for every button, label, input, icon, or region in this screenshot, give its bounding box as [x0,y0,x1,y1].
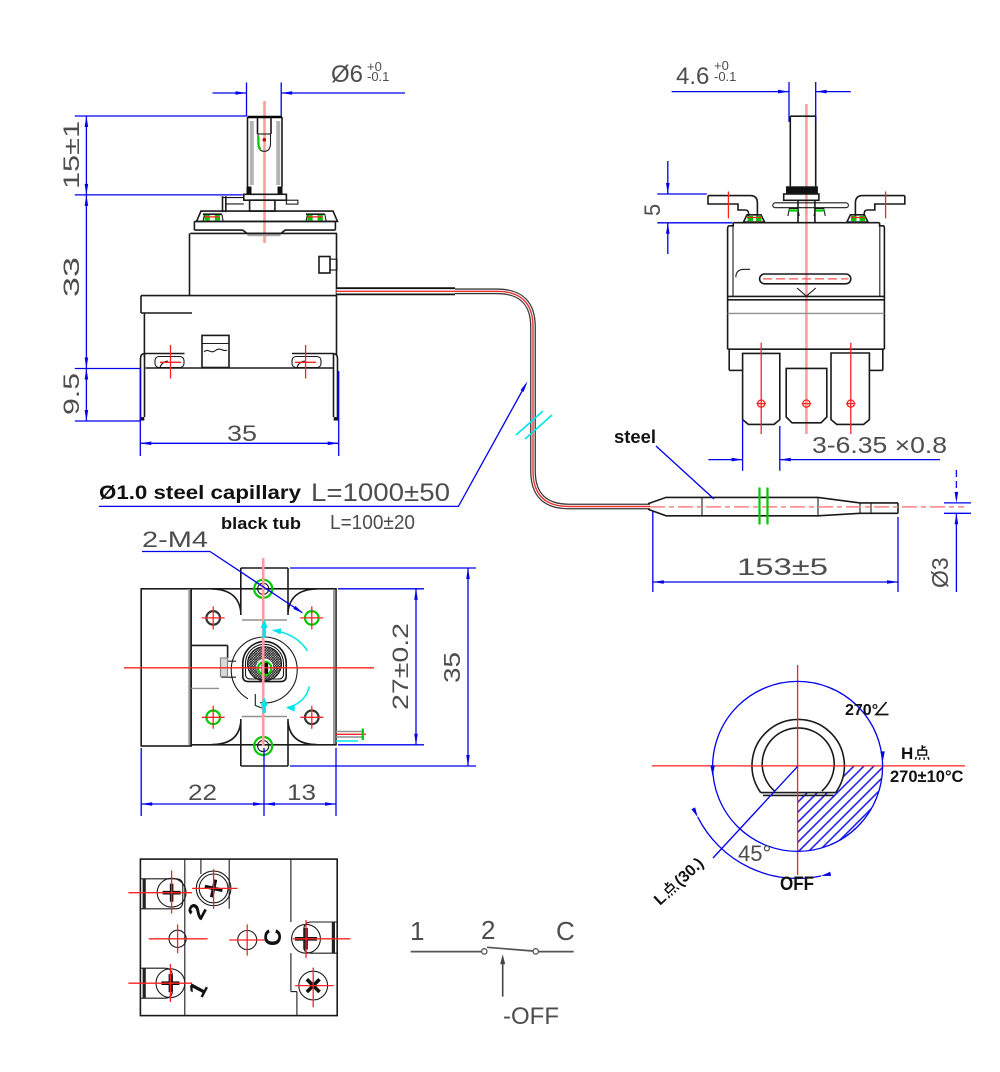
dimensions 22 and 13 [141,748,336,816]
dimension 153±5 [653,511,898,592]
svg-text:Ø3: Ø3 [927,557,953,588]
dimension 5 (side view) [640,161,732,254]
svg-text:C: C [556,916,575,946]
bottom view hole center [229,924,266,955]
svg-text:black tub: black tub [221,514,301,533]
capillary break marks [516,411,543,435]
top view corner holes [202,606,324,728]
sensor bulb [648,497,964,515]
svg-text:270°: 270° [845,702,878,719]
svg-text:2-M4: 2-M4 [142,527,208,552]
side view shaft [784,116,819,223]
top view top mounting tab [212,568,317,620]
svg-text:steel: steel [614,427,656,447]
svg-text:-0.1: -0.1 [714,69,736,84]
top view shaft D-rings [243,642,286,682]
top view center crosshair [124,558,374,746]
dial hatched sector [670,670,900,900]
svg-text:15±1: 15±1 [59,121,84,189]
svg-text:Ø1.0 steel capillary: Ø1.0 steel capillary [99,483,301,504]
front view body [141,233,337,368]
svg-text:Ø6: Ø6 [331,61,363,88]
dimension 4.6 +0 -0.1 [672,58,851,122]
label 2-M4 [142,527,304,614]
svg-text:4.6: 4.6 [676,63,709,90]
side view left wing bracket [708,192,765,223]
svg-text:35: 35 [227,421,257,446]
svg-text:9.5: 9.5 [59,373,84,415]
dimension 3-6.35 x0.8 [708,420,947,471]
schematic OFF arrow [500,954,559,1030]
svg-text:5: 5 [640,204,665,216]
svg-text:22: 22 [188,780,217,805]
svg-text:1: 1 [410,916,424,946]
svg-text:270±10°C: 270±10°C [890,768,964,786]
dimension chain 15±1 / 33 / 9.5 [59,116,246,421]
steel label [614,427,714,499]
bottom view body [140,859,337,1016]
side view middle plate [773,203,849,208]
top view body [141,589,336,746]
bulb green break marks [758,488,760,525]
top view capillary stub [336,729,366,742]
front view flange screws [203,214,326,221]
svg-text:L=1000±50: L=1000±50 [311,479,450,507]
side view inner screw pads [788,209,825,217]
dial centerlines [652,665,965,875]
front view mounting bracket [141,335,338,420]
svg-text:35: 35 [439,652,465,683]
bottom view screw bottom-right [295,968,333,1008]
front view flange plate [194,221,335,235]
top view cam [191,637,297,708]
bottom view screw 2 (inner) [192,869,238,909]
svg-text:13: 13 [287,780,316,805]
svg-text:H: H [901,744,913,763]
svg-text:33: 33 [59,257,84,297]
side view right wing bracket [847,192,905,223]
schematic contact line [411,947,574,954]
capillary leader line [99,381,528,506]
front view centerline [263,101,266,243]
top view rotation arrows (cyan) [261,619,310,713]
capillary tube [337,291,651,506]
side view centerline [805,104,808,434]
dimension Ø6 +0 -0.1 [213,59,406,117]
svg-text:-0.1: -0.1 [367,69,389,84]
svg-text:2: 2 [481,915,495,945]
dimension 35 (front view width) [140,369,338,457]
dimension 27±0.2 [338,589,424,745]
bottom view screw terminal 2 top-left [128,870,192,913]
svg-text:153±5: 153±5 [737,554,828,581]
bottom view terminal labels [182,899,287,1001]
svg-text:L=100±20: L=100±20 [330,512,415,534]
side view terminals [743,343,870,434]
dimension 35 (top view) [290,568,476,766]
dial circle [710,681,884,851]
svg-text:45°: 45° [738,841,771,866]
top view bottom mounting tab [212,717,317,767]
dial pointer 45 deg line [713,766,798,858]
svg-text:OFF: OFF [780,874,814,895]
side view body [728,223,885,371]
svg-text:3-6.35 ×0.8: 3-6.35 ×0.8 [812,432,947,458]
dimension Ø3 [927,470,971,592]
svg-text:C: C [260,929,287,946]
schematic labels 1 2 C [410,915,575,946]
capillary labels [99,479,450,534]
dial shaft arch [752,719,844,795]
dial texts [651,702,964,909]
bottom view screw C right [292,920,351,958]
svg-text:-OFF: -OFF [503,1003,559,1030]
front view shaft [247,117,283,195]
front view stem flange plates [197,194,338,221]
svg-text:27±0.2: 27±0.2 [388,623,413,710]
bottom view screw 1 bottom-left [128,964,192,1002]
bottom view hole left [149,924,208,953]
dial 45 deg arc [691,807,831,878]
